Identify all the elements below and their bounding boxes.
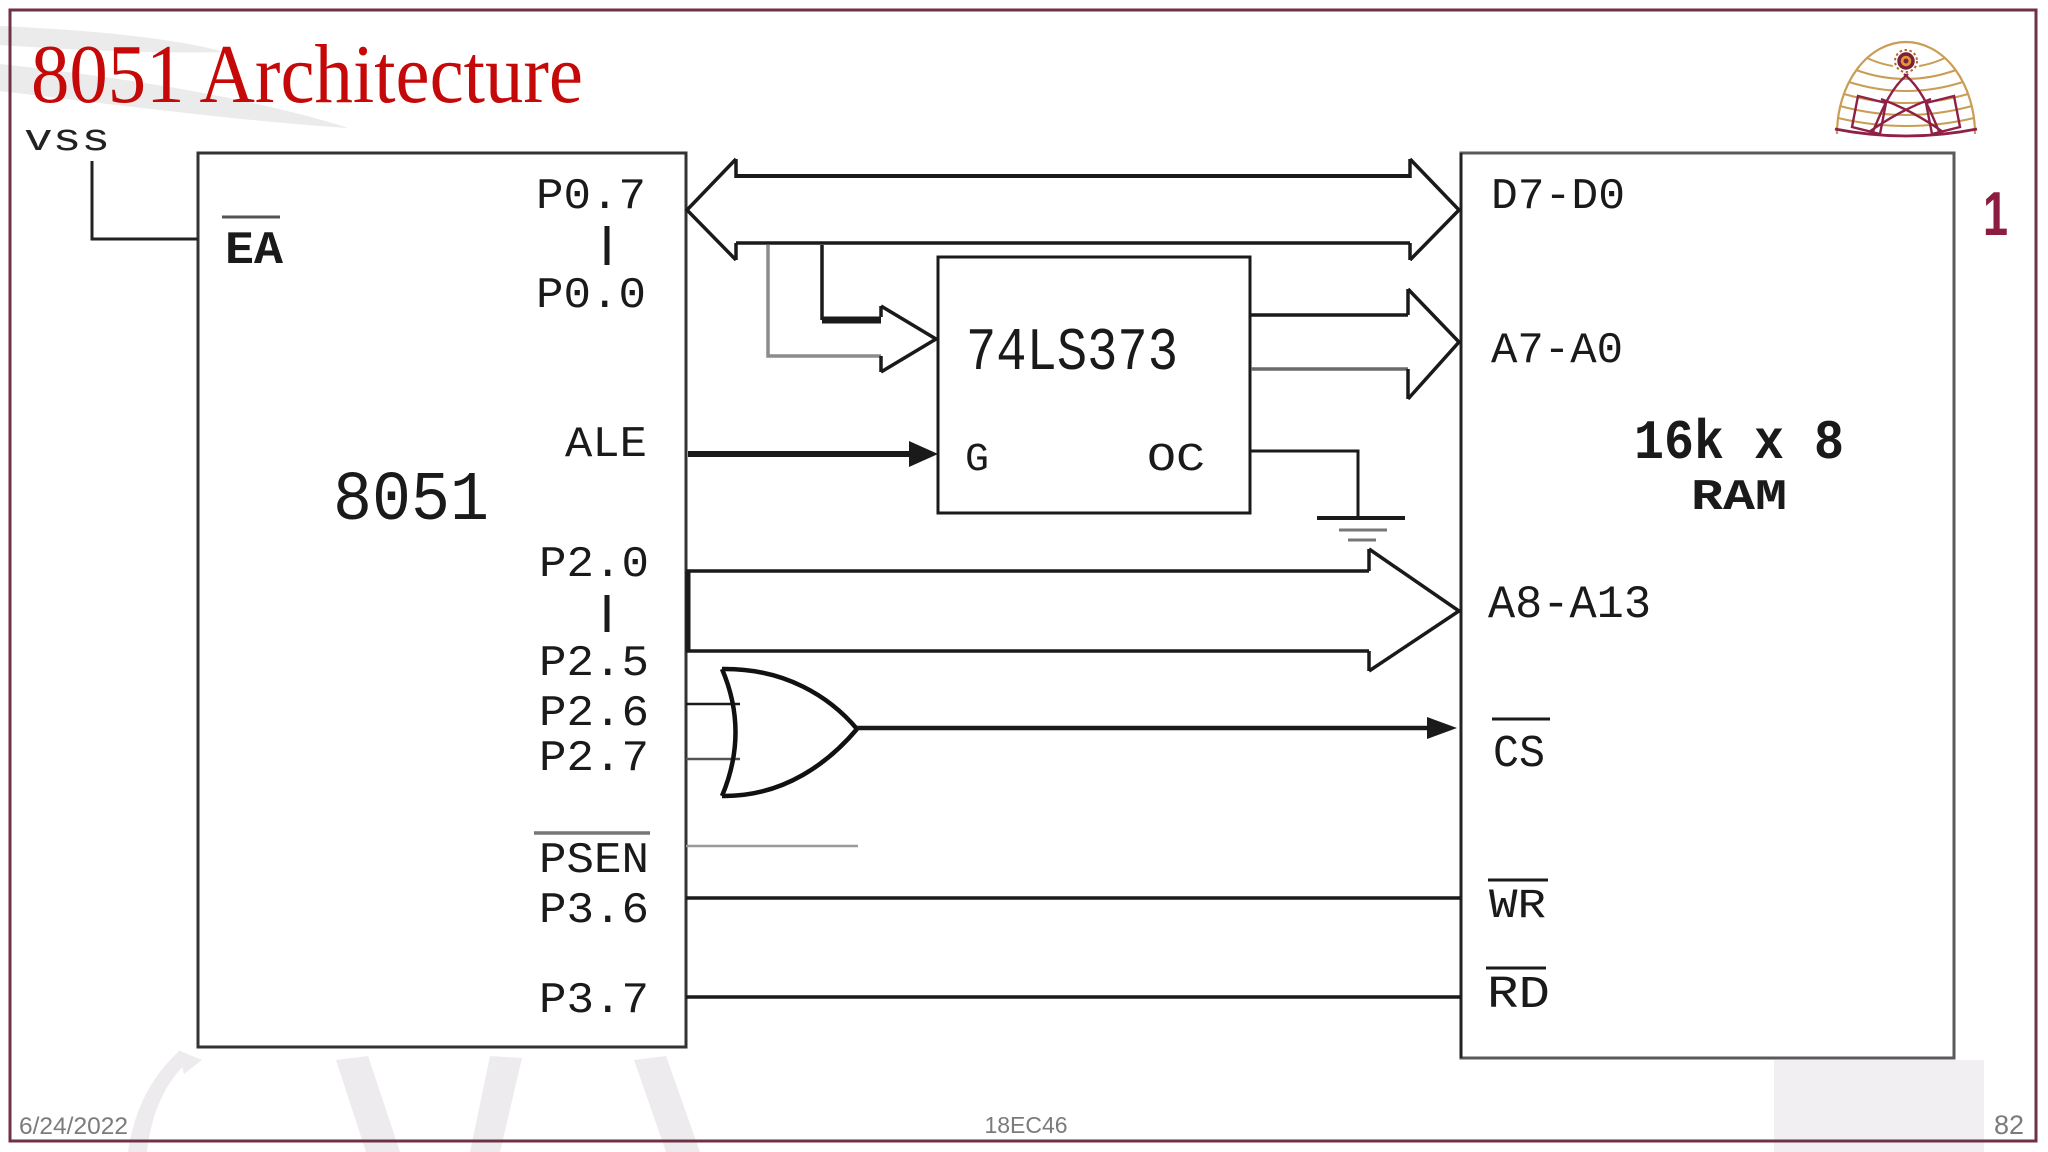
address bus arrow latch to A7-A0 [1251,289,1459,399]
wire P2.7 to OR gate [686,758,740,761]
svg-text:WR: WR [1489,882,1546,930]
pin PSEN (active low) [534,833,650,886]
background watermark swoosh top-left [0,26,348,128]
wire PSEN stub [686,845,858,848]
pin range bar P0 [605,226,610,265]
RAM pin RD (active low) [1486,968,1550,1021]
institute logo [1835,42,1977,136]
wire ALE to G with arrow [688,441,938,467]
wire OR gate output to CS with arrow [857,717,1457,739]
pin range bar P2 [605,595,610,632]
wire VSS to EA [92,161,198,239]
svg-text:RAM: RAM [1691,473,1787,523]
svg-text:A7-A0: A7-A0 [1491,326,1623,376]
wire P3.7 to RD [686,995,1461,999]
svg-text:EA: EA [225,225,283,277]
pin EA (active low) [222,217,283,277]
latch 74LS373 box [938,257,1250,513]
svg-text:8051 Architecture: 8051 Architecture [31,28,583,121]
background watermark swoosh bottom-left [128,1050,700,1152]
RAM box [1461,153,1954,1058]
svg-text:16k x 8: 16k x 8 [1634,411,1844,475]
svg-text:P2.0: P2.0 [539,540,649,590]
svg-text:CS: CS [1493,729,1545,780]
svg-text:6/24/2022: 6/24/2022 [19,1113,128,1140]
svg-text:G: G [965,438,989,483]
svg-text:P2.6: P2.6 [539,689,649,739]
svg-text:8051: 8051 [333,462,489,541]
wire P2.6 to OR gate [686,703,740,706]
address bus arrow P2.0-P2.5 to A8-A13 [686,549,1459,671]
wire P3.6 to WR [686,896,1461,900]
svg-text:A8-A13: A8-A13 [1488,579,1651,631]
svg-text:PSEN: PSEN [539,836,649,886]
svg-text:RD: RD [1487,970,1550,1021]
svg-text:D7-D0: D7-D0 [1491,172,1625,222]
svg-text:P0.0: P0.0 [536,271,646,321]
svg-text:1: 1 [1983,180,2008,249]
RAM pin CS (active low) [1492,719,1550,780]
svg-text:74LS373: 74LS373 [966,320,1178,388]
OR gate U2 [722,669,857,796]
8051 MCU box [198,153,686,1047]
svg-text:P2.7: P2.7 [539,734,649,784]
svg-text:P2.5: P2.5 [539,639,649,689]
ground [1317,518,1405,540]
svg-text:ALE: ALE [565,420,647,470]
svg-text:P0.7: P0.7 [536,172,646,222]
background watermark rectangle bottom-right [1774,1060,1984,1152]
RAM pin WR (active low) [1488,880,1548,930]
svg-text:18EC46: 18EC46 [984,1112,1067,1138]
svg-text:82: 82 [1994,1110,2024,1140]
svg-text:OC: OC [1147,438,1205,483]
wire OC to ground [1251,451,1358,516]
svg-text:P3.6: P3.6 [539,886,649,936]
svg-text:vss: vss [24,119,110,162]
data bus double arrow P0 to D7-D0 [687,159,1459,260]
svg-text:P3.7: P3.7 [539,976,649,1026]
wire branch P0 bus into latch [768,245,936,372]
